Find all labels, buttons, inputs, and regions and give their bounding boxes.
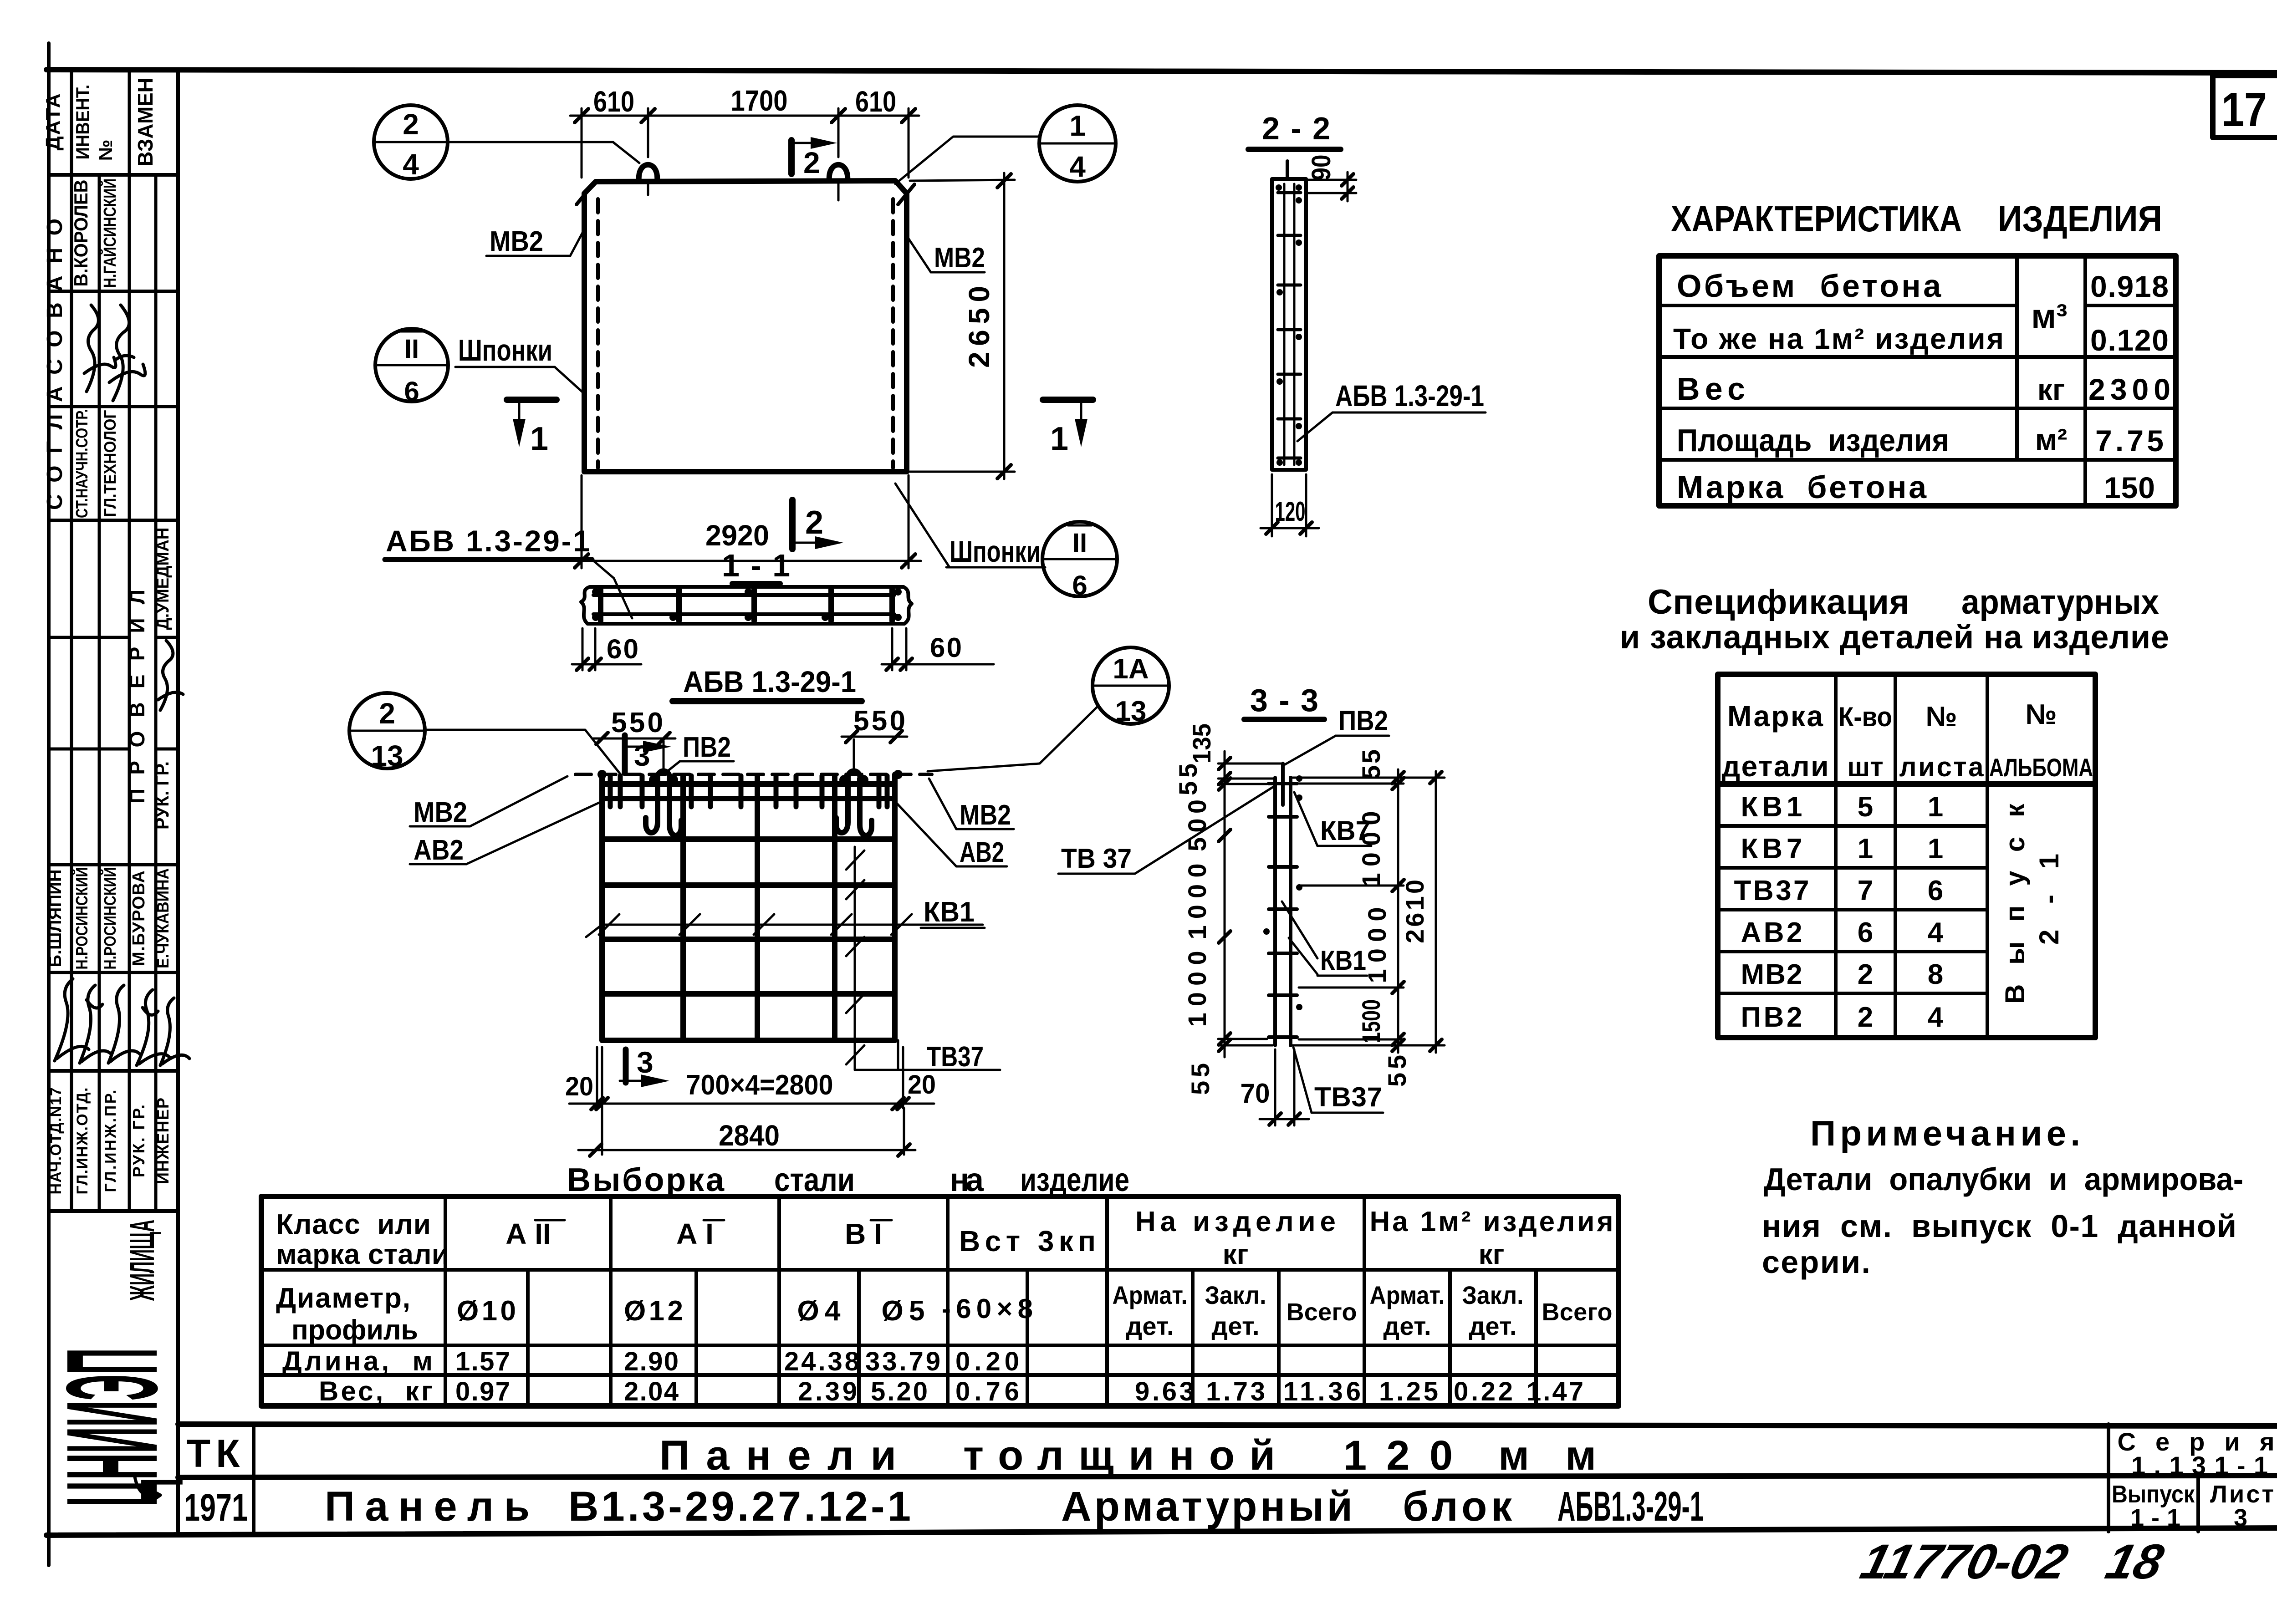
svg-text:стали: стали <box>774 1162 855 1198</box>
svg-text:профиль: профиль <box>291 1314 418 1346</box>
hook PV2 left <box>646 771 681 836</box>
svg-text:II: II <box>404 334 419 364</box>
dim line 610-1700-610 <box>570 115 919 117</box>
svg-text:Арматурный: Арматурный <box>1061 1483 1353 1530</box>
steel table frame <box>261 1196 1618 1406</box>
svg-text:Класс или: Класс или <box>276 1209 431 1240</box>
svg-text:120: 120 <box>1275 496 1306 527</box>
SEC33 <box>1058 682 1445 1125</box>
svg-text:2-1: 2-1 <box>2034 854 2064 945</box>
svg-text:55: 55 <box>1383 1055 1411 1087</box>
callout circle 2/4 <box>374 105 448 179</box>
signature scribble 5 <box>80 985 112 1063</box>
strip row line 5 <box>49 636 129 639</box>
right inner dim line <box>1397 769 1399 1053</box>
section mark 3 top <box>622 735 628 773</box>
svg-text:Ø12: Ø12 <box>624 1295 683 1327</box>
svg-text:шт: шт <box>1847 752 1883 782</box>
svg-text:ТК: ТК <box>186 1432 245 1476</box>
svg-text:АБВ 1.3-29-1: АБВ 1.3-29-1 <box>386 524 590 558</box>
dim line 20/700x4=2800/20 <box>569 1103 934 1105</box>
svg-text:детали: детали <box>1722 750 1829 783</box>
svg-text:Вст 3кп: Вст 3кп <box>959 1225 1096 1257</box>
svg-text:Н.РОСИНСКИЙ: Н.РОСИНСКИЙ <box>100 867 119 970</box>
strip row line 2 <box>49 290 178 293</box>
title block top line <box>178 1424 2277 1426</box>
grid horizontal bar 7 <box>602 1038 895 1043</box>
grid vertical bar 1 <box>599 774 605 1040</box>
dim 2920 extension lines <box>581 475 583 568</box>
svg-text:Ø4: Ø4 <box>797 1295 841 1327</box>
svg-text:2: 2 <box>1858 959 1873 990</box>
svg-text:дет.: дет. <box>1469 1312 1517 1340</box>
svg-text:610: 610 <box>855 85 896 118</box>
leader 1/4 <box>895 137 1040 184</box>
lifting loop right <box>829 165 847 181</box>
svg-text:Площадь изделия: Площадь изделия <box>1677 423 1949 458</box>
svg-text:8: 8 <box>1928 959 1943 990</box>
svg-text:№: № <box>2025 699 2057 730</box>
svg-text:Д.УМЕДМАН: Д.УМЕДМАН <box>153 528 173 630</box>
strip row line 1 <box>49 173 178 177</box>
svg-text:ния см. выпуск 0-1 данной: ния см. выпуск 0-1 данной <box>1762 1208 2236 1244</box>
svg-text:РУК. ГР.: РУК. ГР. <box>151 761 173 830</box>
svg-text:блок: блок <box>1403 1483 1512 1530</box>
svg-text:-60×8: -60×8 <box>942 1293 1033 1324</box>
svg-text:5: 5 <box>1858 791 1873 823</box>
steel table row lines <box>261 1268 1618 1272</box>
specification col line 3 <box>1986 674 1989 1038</box>
svg-text:дет.: дет. <box>1212 1312 1260 1340</box>
svg-text:2920: 2920 <box>705 519 769 552</box>
svg-text:4: 4 <box>1928 1002 1944 1033</box>
svg-text:В I: В I <box>845 1217 882 1250</box>
Seriya cell divider <box>2107 1424 2110 1532</box>
svg-text:А I: А I <box>676 1217 714 1250</box>
strip row line 6 <box>49 748 129 751</box>
strip row line 8 <box>49 971 178 974</box>
svg-text:1000: 1000 <box>1183 864 1211 940</box>
svg-text:700×4=2800: 700×4=2800 <box>686 1069 833 1101</box>
steel table sub col lines <box>526 1270 530 1406</box>
grid top wire ticks <box>610 776 887 807</box>
svg-text:6: 6 <box>1858 917 1873 948</box>
svg-text:Н.РОСИНСКИЙ: Н.РОСИНСКИЙ <box>72 867 91 970</box>
svg-text:КВ7: КВ7 <box>1741 833 1802 865</box>
left dim chain line <box>1224 751 1226 1057</box>
svg-text:ГЛ.ТЕХНОЛОГ: ГЛ.ТЕХНОЛОГ <box>101 410 119 517</box>
svg-text:м²: м² <box>2035 423 2068 456</box>
svg-text:Всего: Всего <box>1287 1298 1357 1326</box>
svg-text:17: 17 <box>2221 83 2267 137</box>
svg-text:ВЗАМЕН: ВЗАМЕН <box>133 78 157 167</box>
section 1-1 rebar dots <box>592 588 599 596</box>
strip row line 4 <box>49 519 178 522</box>
svg-text:АБВ 1.3-29-1: АБВ 1.3-29-1 <box>683 665 856 698</box>
svg-text:ДАТА: ДАТА <box>42 94 64 151</box>
svg-text:Шпонки: Шпонки <box>950 535 1041 568</box>
svg-text:2 - 2: 2 - 2 <box>1262 111 1330 146</box>
dim 90 <box>1308 179 1356 181</box>
svg-text:55: 55 <box>1174 764 1202 795</box>
panel left dashed key line <box>596 199 600 468</box>
svg-text:0.20: 0.20 <box>955 1347 1019 1376</box>
panel outline <box>584 181 907 472</box>
svg-text:дет.: дет. <box>1384 1312 1431 1340</box>
svg-text:550: 550 <box>611 707 663 738</box>
svg-text:2.04: 2.04 <box>624 1377 679 1406</box>
svg-text:ЖИЛИЩА: ЖИЛИЩА <box>123 1220 162 1301</box>
PLANVIEW <box>374 84 1117 601</box>
dim 550 left <box>593 738 675 740</box>
frame left line <box>47 43 51 1565</box>
dim 120 <box>1271 474 1273 536</box>
svg-text:1: 1 <box>1050 421 1068 457</box>
svg-text:Ø10: Ø10 <box>457 1295 516 1327</box>
svg-text:толщиной: толщиной <box>963 1432 1275 1479</box>
svg-text:ГЛ.ИНЖ.ПР.: ГЛ.ИНЖ.ПР. <box>102 1090 119 1192</box>
title block middle line <box>178 1476 2277 1477</box>
svg-text:В1.3-29.27.12-1: В1.3-29.27.12-1 <box>568 1483 911 1530</box>
svg-text:33.79: 33.79 <box>865 1347 940 1376</box>
section 2-2 outline <box>1272 179 1306 470</box>
dim 2650 extension lines <box>910 180 1015 181</box>
characteristics row line 1 <box>1659 304 2017 307</box>
svg-text:изделие: изделие <box>1020 1162 1129 1198</box>
svg-text:Спецификация: Спецификация <box>1648 583 1909 621</box>
characteristics table frame <box>1659 256 2176 506</box>
leader 2/13 <box>425 730 620 774</box>
TK cell divider <box>252 1424 255 1532</box>
svg-text:ЦНИИЭП: ЦНИИЭП <box>40 1348 184 1507</box>
section 1-1 bar outline <box>581 587 912 624</box>
svg-text:ИЗДЕЛИЯ: ИЗДЕЛИЯ <box>1998 199 2162 239</box>
sheet number box <box>2213 76 2277 137</box>
svg-text:дет.: дет. <box>1126 1312 1174 1340</box>
svg-text:500: 500 <box>1183 799 1211 851</box>
dim 610-1700-610 extension lines <box>581 108 583 178</box>
svg-text:Закл.: Закл. <box>1205 1281 1266 1309</box>
callout circle II/6 left <box>375 329 448 402</box>
dim 550 right <box>842 736 907 738</box>
svg-text:МВ2: МВ2 <box>490 226 543 257</box>
svg-text:1.73: 1.73 <box>1206 1377 1265 1406</box>
svg-text:4: 4 <box>1928 917 1944 948</box>
callout circle 2/13 <box>349 693 425 769</box>
svg-text:ХАРАКТЕРИСТИКА: ХАРАКТЕРИСТИКА <box>1671 199 1962 239</box>
svg-text:А II: А II <box>505 1217 551 1250</box>
svg-text:1А: 1А <box>1113 653 1149 685</box>
signature scribble 3 <box>158 641 183 710</box>
section 3-3 dots <box>1296 775 1302 782</box>
svg-text:3 - 3: 3 - 3 <box>1250 682 1318 718</box>
lifting loop left <box>639 165 657 181</box>
svg-text:ТВ 37: ТВ 37 <box>1061 843 1132 874</box>
svg-text:2840: 2840 <box>719 1119 780 1152</box>
svg-text:60: 60 <box>607 634 638 664</box>
callout circle 1/4 <box>1039 105 1116 182</box>
strip column line B <box>98 175 101 1211</box>
logo arrow <box>135 1477 160 1502</box>
svg-text:7: 7 <box>1858 875 1873 906</box>
svg-text:ПВ2: ПВ2 <box>683 732 731 763</box>
svg-text:КВ1: КВ1 <box>1320 945 1366 976</box>
svg-text:3: 3 <box>637 1045 653 1079</box>
section 2-2 top stub <box>1286 161 1289 179</box>
svg-text:АЛЬБОМА: АЛЬБОМА <box>1989 753 2093 782</box>
svg-text:Детали опалубки и армирова-: Детали опалубки и армирова- <box>1764 1161 2243 1197</box>
svg-text:120: 120 <box>1343 1432 1453 1479</box>
characteristics table col line units <box>2015 256 2019 460</box>
svg-text:Шпонки: Шпонки <box>458 333 552 367</box>
specification header row line <box>1718 781 2095 787</box>
dim line 2920 <box>569 560 921 562</box>
svg-text:Всего: Всего <box>1542 1298 1613 1326</box>
svg-text:1000: 1000 <box>1183 951 1211 1027</box>
right dim extension lines <box>1292 777 1445 779</box>
TV37 box <box>854 847 856 1070</box>
dim line 2840 <box>578 1149 915 1151</box>
svg-text:АБВ1.3-29-1: АБВ1.3-29-1 <box>1557 1483 1704 1530</box>
svg-text:МВ2: МВ2 <box>1741 959 1802 990</box>
svg-text:6: 6 <box>404 376 419 407</box>
hook PV2 right <box>836 771 872 836</box>
svg-text:6: 6 <box>1072 570 1087 601</box>
section 2-2 inner rebar lines <box>1283 184 1286 465</box>
grid horizontal bar 2 <box>602 796 895 801</box>
SEC22 <box>1248 111 1486 536</box>
svg-text:11.36: 11.36 <box>1283 1377 1361 1406</box>
signature scribble 7 <box>137 990 170 1065</box>
dim 60 left <box>582 628 584 670</box>
svg-text:2: 2 <box>803 146 820 179</box>
specification row lines <box>1718 824 1987 828</box>
svg-text:Панели: Панели <box>659 1432 896 1479</box>
section mark 1 left <box>507 397 556 403</box>
characteristics row line 4 <box>1659 458 2176 462</box>
svg-text:60: 60 <box>930 632 962 663</box>
svg-text:На изделие: На изделие <box>1135 1206 1336 1237</box>
svg-text:1.57: 1.57 <box>455 1347 510 1376</box>
grid horizontal bar 5 <box>602 937 895 942</box>
frame bottom line <box>46 1528 2277 1535</box>
svg-text:90: 90 <box>1307 155 1336 181</box>
svg-text:2: 2 <box>1858 1002 1873 1033</box>
svg-text:РУК. ГР.: РУК. ГР. <box>129 1105 148 1177</box>
svg-text:листа: листа <box>1899 752 1984 782</box>
svg-text:9.63: 9.63 <box>1135 1377 1194 1406</box>
svg-text:ИНВЕНТ.: ИНВЕНТ. <box>72 85 93 160</box>
svg-text:2: 2 <box>403 108 419 141</box>
svg-text:1 - 1: 1 - 1 <box>722 548 790 583</box>
svg-text:кг: кг <box>2037 372 2065 406</box>
svg-text:Лист: Лист <box>2210 1481 2274 1508</box>
characteristics table col line values <box>2083 256 2087 506</box>
svg-text:20: 20 <box>565 1072 593 1101</box>
svg-text:3: 3 <box>634 739 650 772</box>
specification table frame <box>1718 674 2095 1038</box>
svg-text:СТ.НАУЧН.СОТР.: СТ.НАУЧН.СОТР. <box>72 409 91 518</box>
svg-text:13: 13 <box>371 739 403 772</box>
svg-text:КВ7: КВ7 <box>1320 815 1370 846</box>
strip row line 9 <box>49 1069 178 1073</box>
svg-text:1000: 1000 <box>1363 907 1391 983</box>
section 1-1 top rebar line <box>593 593 894 597</box>
svg-text:серии.: серии. <box>1762 1244 1870 1280</box>
svg-text:на: на <box>950 1162 984 1198</box>
svg-text:1971: 1971 <box>184 1486 248 1529</box>
svg-text:Армат.: Армат. <box>1370 1281 1445 1309</box>
svg-text:АВ2: АВ2 <box>414 835 464 866</box>
svg-text:1: 1 <box>1928 833 1943 865</box>
right outer dim line 2610 <box>1435 771 1437 1053</box>
svg-text:1-1: 1-1 <box>2130 1504 2180 1532</box>
MV2 dashed top bar <box>576 773 932 776</box>
svg-text:АВ2: АВ2 <box>1741 917 1802 948</box>
signature scribble 4 <box>55 979 89 1061</box>
svg-text:Марка бетона: Марка бетона <box>1677 469 1927 505</box>
leader to section 1-1 <box>592 560 632 618</box>
section mark 3 bottom <box>623 1049 629 1083</box>
svg-text:55: 55 <box>1186 1063 1215 1095</box>
svg-text:1: 1 <box>1928 791 1943 823</box>
section 2-2 rebar dots <box>1296 197 1302 204</box>
dim line 2650 <box>1003 173 1006 479</box>
svg-text:Ø5: Ø5 <box>882 1295 925 1327</box>
svg-text:ПВ2: ПВ2 <box>1338 705 1388 737</box>
svg-text:АБВ 1.3-29-1: АБВ 1.3-29-1 <box>1335 379 1484 412</box>
svg-text:МВ2: МВ2 <box>934 242 985 274</box>
section 2-2 wire ticks <box>1278 193 1301 458</box>
dims 20/2800/20 extension lines <box>596 1047 598 1108</box>
svg-text:ИНЖЕНЕР: ИНЖЕНЕР <box>153 1098 172 1184</box>
characteristics row line 2 <box>1659 355 2176 359</box>
grid vertical bar 2 <box>680 776 686 1040</box>
strip column line C <box>128 71 131 1211</box>
svg-text:ГЛ.ИНЖ.ОТД.: ГЛ.ИНЖ.ОТД. <box>74 1088 91 1195</box>
svg-text:Вес, кг: Вес, кг <box>319 1376 433 1406</box>
svg-text:Выпуск: Выпуск <box>2000 803 2030 1004</box>
callout circle 1A/13 <box>1093 647 1169 724</box>
svg-text:13: 13 <box>1115 696 1147 727</box>
corner tick left <box>577 184 593 204</box>
svg-text:Выборка: Выборка <box>567 1162 725 1198</box>
dim 60 right <box>891 628 893 670</box>
grid vertical bar 5 <box>892 774 898 1040</box>
svg-text:2.90: 2.90 <box>624 1347 679 1376</box>
svg-text:Примечание.: Примечание. <box>1810 1113 2080 1153</box>
svg-text:70: 70 <box>1241 1078 1270 1109</box>
svg-text:кг: кг <box>1479 1239 1505 1270</box>
grid horizontal bar 1 <box>602 781 895 787</box>
signature scribble 1 <box>84 305 116 392</box>
dim 70 bottom <box>1274 1049 1276 1125</box>
svg-text:марка стали: марка стали <box>276 1239 449 1270</box>
section mark 1 right <box>1043 397 1093 403</box>
section mark 2 top <box>788 140 795 174</box>
svg-text:150: 150 <box>2104 471 2155 504</box>
svg-text:Выпуск: Выпуск <box>2112 1481 2195 1508</box>
leader 1A/13 <box>928 706 1098 771</box>
frame top line <box>46 70 2277 73</box>
svg-text:Е.ЧУКАВИНА: Е.ЧУКАВИНА <box>153 868 172 968</box>
svg-text:2.39: 2.39 <box>798 1377 857 1406</box>
svg-text:м³: м³ <box>2031 297 2067 335</box>
svg-text:610: 610 <box>593 85 634 118</box>
signature scribble 8 <box>160 998 189 1065</box>
svg-text:1.25: 1.25 <box>1379 1377 1438 1406</box>
strip right edge <box>176 71 180 1532</box>
LEFTSTRIP <box>40 71 189 1532</box>
svg-text:Длина, м: Длина, м <box>282 1346 433 1376</box>
svg-text:ТВ37: ТВ37 <box>927 1041 984 1073</box>
svg-text:1.47: 1.47 <box>1527 1377 1583 1406</box>
svg-text:2: 2 <box>805 504 823 541</box>
strip column line A <box>70 71 73 1211</box>
svg-text:арматурных: арматурных <box>1961 583 2159 621</box>
svg-text:ПВ2: ПВ2 <box>1741 1002 1802 1033</box>
grid horizontal bar 6 <box>602 991 895 997</box>
callout circle II/6 right <box>1042 522 1117 596</box>
svg-text:№: № <box>95 140 116 161</box>
svg-text:2300: 2300 <box>2088 372 2170 406</box>
KV1 thin line with hatches <box>586 925 983 937</box>
svg-text:0.120: 0.120 <box>2090 323 2169 357</box>
svg-text:и закладных деталей на изделие: и закладных деталей на изделие <box>1620 619 2169 656</box>
svg-text:ТВ37: ТВ37 <box>1734 875 1809 906</box>
svg-text:3: 3 <box>2234 1504 2247 1532</box>
svg-text:СОГЛАСОВАНО: СОГЛАСОВАНО <box>43 219 67 510</box>
svg-text:КВ1: КВ1 <box>924 896 975 928</box>
leader 2/4 <box>448 142 639 163</box>
svg-text:55: 55 <box>1357 749 1385 779</box>
characteristics row line 3 <box>1659 407 2176 410</box>
svg-text:МВ2: МВ2 <box>414 797 467 828</box>
svg-text:То же на 1м² изделия: То же на 1м² изделия <box>1673 322 2004 355</box>
svg-text:№: № <box>1925 701 1957 733</box>
svg-text:6: 6 <box>1928 875 1943 906</box>
svg-text:1: 1 <box>530 421 548 457</box>
SEC11GRID <box>349 524 1169 1156</box>
TITLEBLOCK <box>178 1424 2277 1532</box>
svg-text:2610: 2610 <box>1400 880 1429 943</box>
strip row line 10 <box>49 1209 178 1213</box>
svg-text:4: 4 <box>1069 150 1086 183</box>
svg-text:4: 4 <box>403 148 419 181</box>
specification col line 1 <box>1834 674 1838 1038</box>
svg-text:1500: 1500 <box>1357 999 1385 1043</box>
section 3-3 wire ticks <box>1269 784 1297 1037</box>
signature scribble 2 <box>109 305 145 401</box>
strip column line D <box>154 175 158 1211</box>
svg-text:20: 20 <box>908 1070 936 1100</box>
svg-text:Объем бетона: Объем бетона <box>1677 268 1941 304</box>
strip row line 7 <box>49 863 178 866</box>
svg-text:Закл.: Закл. <box>1462 1281 1524 1309</box>
svg-text:ТВ37: ТВ37 <box>1314 1082 1382 1112</box>
svg-text:АВ2: АВ2 <box>960 837 1004 868</box>
svg-text:М.БУРОВА: М.БУРОВА <box>129 871 148 966</box>
svg-text:11770-02 18: 11770-02 18 <box>1855 1534 2169 1589</box>
TV37 box hatches <box>846 850 864 870</box>
svg-text:0.918: 0.918 <box>2090 270 2169 303</box>
corner tick right <box>898 184 914 204</box>
grid horizontal bar 3 <box>602 836 895 842</box>
svg-text:Н.ГАЙСИНСКИЙ: Н.ГАЙСИНСКИЙ <box>99 178 120 288</box>
section 1-1 bottom rebar line <box>593 612 894 616</box>
svg-text:На 1м² изделия: На 1м² изделия <box>1370 1206 1613 1237</box>
STEELTABLE <box>261 1162 1618 1406</box>
